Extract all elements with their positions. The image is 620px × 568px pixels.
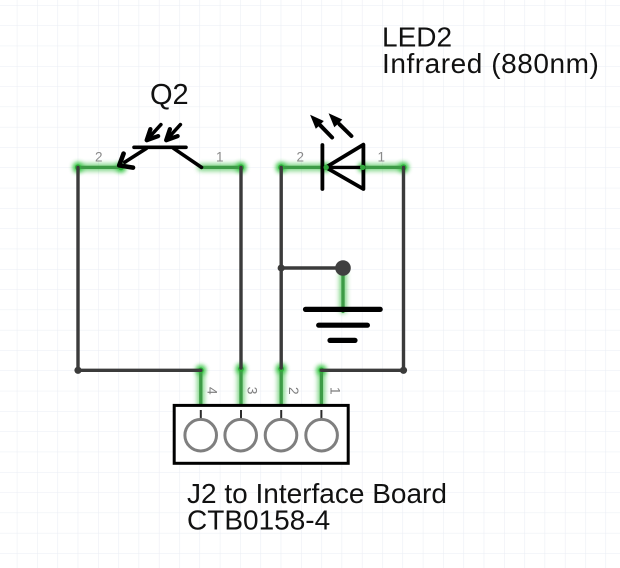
pin 4 circle xyxy=(185,419,217,451)
svg-text:Infrared (880nm): Infrared (880nm) xyxy=(382,48,599,79)
wire net glow pin3 stub xyxy=(237,368,245,413)
wire net glow LED pin1 xyxy=(363,164,404,172)
pin 2 lead xyxy=(280,410,282,419)
bright endpoint dots xyxy=(75,164,407,373)
transistor Q2 emitter leg with arrow xyxy=(119,148,146,167)
pin 1 circle xyxy=(306,419,338,451)
wire net glow ground stub xyxy=(339,273,347,311)
photo arrow into Q2 (left) xyxy=(147,125,161,141)
junction node dot xyxy=(335,260,351,276)
LED triangle xyxy=(326,145,364,189)
wire left vertical from Q2 pin2 xyxy=(78,167,201,370)
svg-text:2: 2 xyxy=(286,387,302,395)
wire net glow pin2 stub xyxy=(277,368,285,413)
wire vertical from LED pin1 xyxy=(321,167,403,370)
svg-text:Q2: Q2 xyxy=(150,79,189,111)
wire net glow Q2 pin2 xyxy=(78,164,122,172)
wire junction branch xyxy=(281,266,343,269)
wire net glow pin1 stub xyxy=(318,370,326,412)
wire LED pin1 xyxy=(363,166,404,169)
pin 1 lead xyxy=(320,410,322,419)
connector body xyxy=(174,405,348,463)
svg-text:1: 1 xyxy=(216,150,224,165)
endpoint glow dots xyxy=(73,162,409,375)
node green dot at LED apex xyxy=(324,165,329,170)
transistor Q2 collector leg xyxy=(174,148,202,167)
wire net glow Q2 pin1 xyxy=(201,164,241,172)
wire Q2 pin2 to corner xyxy=(78,166,122,169)
node tap dot on LED pin2 wire xyxy=(278,264,285,271)
wire net glow LED pin2 xyxy=(281,164,326,172)
wire vertical from Q2 pin1 xyxy=(239,167,242,368)
wire junction to ground xyxy=(341,273,344,312)
svg-text:1: 1 xyxy=(378,150,386,165)
wire LED pin2 xyxy=(281,166,326,169)
ground middle bar xyxy=(319,323,368,328)
wire stub pin2 xyxy=(280,368,283,413)
light arrow from LED (right) xyxy=(329,113,352,136)
wire net glow pin4 stub xyxy=(197,370,205,412)
wire stub pin4 xyxy=(199,370,202,412)
wire Q2 pin1 to corner xyxy=(201,166,241,169)
ground top bar xyxy=(306,307,381,312)
photo arrow into Q2 (right) xyxy=(166,125,180,141)
svg-text:1: 1 xyxy=(328,387,344,395)
wire stub pin3 xyxy=(239,368,242,413)
svg-text:CTB0158-4: CTB0158-4 xyxy=(187,505,330,536)
wire vertical from LED pin2 xyxy=(280,167,283,368)
pin 2 circle xyxy=(265,419,297,451)
svg-text:3: 3 xyxy=(245,387,261,395)
node bend dot left bottom xyxy=(74,367,81,374)
node bend dot right bottom xyxy=(400,367,407,374)
LED cathode bar xyxy=(320,145,324,189)
ground bottom bar xyxy=(330,338,355,343)
LED mid line xyxy=(327,166,363,169)
pin 3 lead xyxy=(240,410,242,419)
wire stub pin1 xyxy=(320,370,323,412)
svg-text:2: 2 xyxy=(95,150,103,165)
svg-text:4: 4 xyxy=(205,387,221,395)
svg-text:2: 2 xyxy=(296,150,304,165)
pin 4 lead xyxy=(200,410,202,419)
node green dot at LED triangle base xyxy=(360,165,365,170)
pin 3 circle xyxy=(225,419,257,451)
light arrow from LED (left) xyxy=(310,115,332,138)
transistor Q2 base bar xyxy=(134,146,186,150)
